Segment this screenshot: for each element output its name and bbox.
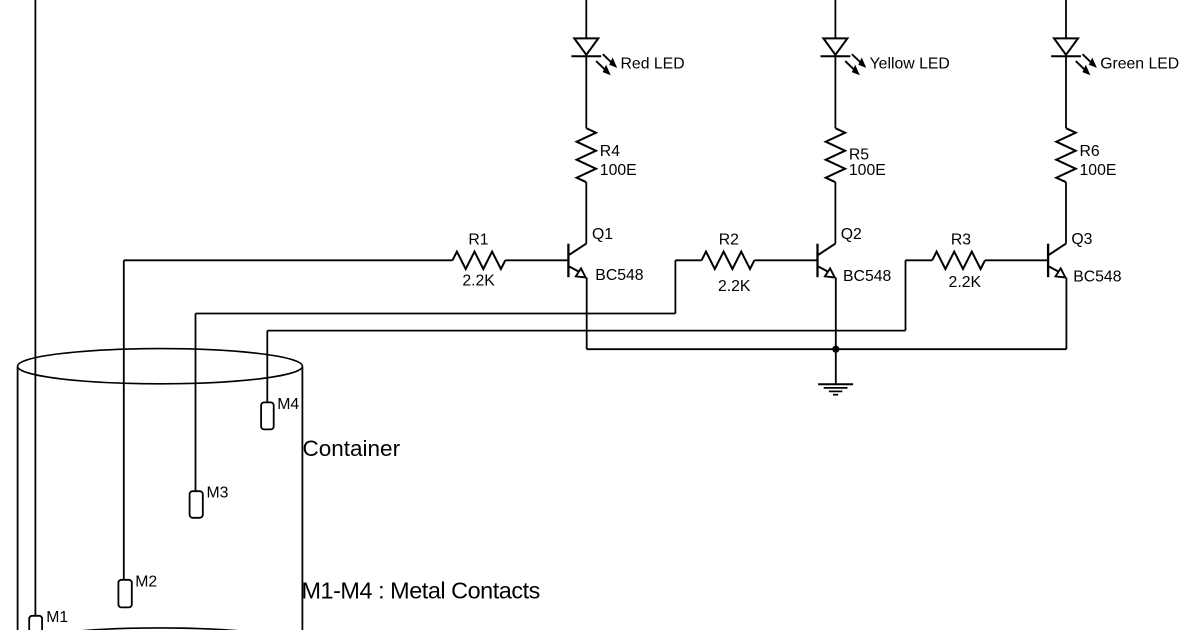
svg-text:100E: 100E xyxy=(600,162,637,179)
wire R4 to Q1 collector xyxy=(585,182,587,243)
svg-text:Q3: Q3 xyxy=(1071,231,1092,248)
transistor Q1 BC548 xyxy=(568,244,586,278)
wire Q3 emitter down xyxy=(1065,278,1067,350)
ground symbol xyxy=(818,384,853,394)
wire M4 drop vertical xyxy=(266,331,268,403)
metal contact M4 xyxy=(261,402,274,429)
LED D3 Green xyxy=(1051,38,1097,75)
resistor R1 2.2K xyxy=(453,252,506,269)
wire R3 drop to M4 rail xyxy=(905,260,907,330)
wire M3 rail horizontal xyxy=(196,313,676,315)
resistor R6 100E xyxy=(1056,128,1075,182)
svg-text:R5: R5 xyxy=(849,146,869,163)
svg-text:M2: M2 xyxy=(135,574,157,591)
svg-text:R3: R3 xyxy=(951,232,971,249)
svg-text:M3: M3 xyxy=(207,485,229,502)
wire R2 to Q2 base xyxy=(754,259,817,261)
resistor R5 100E xyxy=(826,128,845,182)
junction dot at Q2 emitter xyxy=(832,346,839,353)
svg-text:R6: R6 xyxy=(1080,143,1100,160)
wire R5 to Q2 collector xyxy=(834,182,836,243)
svg-text:R1: R1 xyxy=(468,232,488,249)
wire supply to LED Red anode xyxy=(585,0,587,38)
wire LED cathode to R4 xyxy=(585,56,587,128)
svg-text:BC548: BC548 xyxy=(1073,268,1122,285)
wire M4 rail horizontal xyxy=(267,330,905,332)
svg-text:Q2: Q2 xyxy=(841,226,862,243)
wire R1 left to M2 drop xyxy=(124,259,453,261)
wire M2 drop vertical xyxy=(123,260,125,580)
svg-text:M4: M4 xyxy=(277,396,299,413)
svg-text:Q1: Q1 xyxy=(592,226,613,243)
wire R6 to Q3 collector xyxy=(1065,182,1067,243)
svg-text:R2: R2 xyxy=(719,232,739,249)
wire Q2 emitter down xyxy=(835,278,837,350)
metal contact M1 xyxy=(29,616,42,630)
container right wall xyxy=(301,366,303,630)
svg-text:Yellow LED: Yellow LED xyxy=(870,56,950,73)
svg-text:M1: M1 xyxy=(46,609,68,626)
transistor Q2 BC548 xyxy=(818,244,836,278)
metal contact M3 xyxy=(190,491,203,518)
wire ground stem xyxy=(835,349,837,384)
wire R1 to Q1 base xyxy=(505,259,568,261)
wire supply to LED Green anode xyxy=(1065,0,1067,38)
wire emitter ground rail xyxy=(587,348,1067,350)
svg-text:2.2K: 2.2K xyxy=(949,274,982,291)
wire R2 drop to M3 rail xyxy=(674,260,676,313)
wire R3 left horizontal xyxy=(906,259,933,261)
wire LED cathode to R6 xyxy=(1065,56,1067,128)
svg-text:2.2K: 2.2K xyxy=(462,272,495,289)
resistor R2 2.2K xyxy=(702,252,755,269)
svg-text:R4: R4 xyxy=(600,143,620,160)
svg-text:2.2K: 2.2K xyxy=(718,278,751,295)
resistor R4 100E xyxy=(577,128,596,182)
LED D1 Red xyxy=(571,38,617,75)
svg-text:M1-M4 : Metal Contacts: M1-M4 : Metal Contacts xyxy=(302,578,540,604)
svg-text:Container: Container xyxy=(303,436,401,461)
container left wall xyxy=(17,366,19,630)
transistor Q3 BC548 xyxy=(1048,244,1066,278)
svg-text:100E: 100E xyxy=(1080,162,1117,179)
wire LED cathode to R5 xyxy=(834,56,836,128)
wire Q1 emitter down xyxy=(586,278,588,350)
wire +V supply rail down to M1 xyxy=(34,0,36,616)
container cylinder top ellipse xyxy=(18,349,303,384)
svg-text:BC548: BC548 xyxy=(595,267,644,284)
container bottom ellipse arc xyxy=(18,628,303,630)
metal contact M2 xyxy=(118,580,131,608)
wire M3 drop vertical xyxy=(195,314,197,493)
svg-text:Red LED: Red LED xyxy=(621,56,685,73)
svg-text:BC548: BC548 xyxy=(843,268,892,285)
wire supply to LED Yellow anode xyxy=(834,0,836,38)
wire R3 to Q3 base xyxy=(985,259,1048,261)
resistor R3 2.2K xyxy=(932,252,985,269)
svg-text:Green LED: Green LED xyxy=(1100,56,1179,73)
wire R2 left horizontal xyxy=(675,259,701,261)
svg-text:100E: 100E xyxy=(849,162,886,179)
LED D2 Yellow xyxy=(821,38,867,75)
